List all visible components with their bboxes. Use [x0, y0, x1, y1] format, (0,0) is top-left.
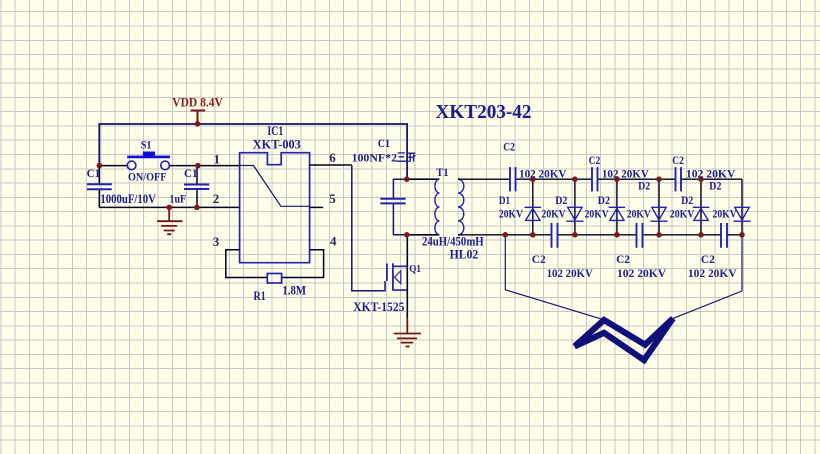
- svg-text:20KV: 20KV: [542, 207, 566, 221]
- svg-text:6: 6: [329, 150, 336, 165]
- svg-text:D1: D1: [499, 193, 510, 207]
- svg-text:20KV: 20KV: [670, 207, 695, 221]
- svg-text:C2: C2: [589, 153, 601, 167]
- svg-text:T1: T1: [436, 165, 449, 179]
- svg-text:3: 3: [213, 234, 220, 249]
- svg-text:1000uF/10V: 1000uF/10V: [100, 192, 155, 206]
- svg-text:24uH/450mH: 24uH/450mH: [422, 234, 484, 248]
- svg-text:100NF*2: 100NF*2: [352, 151, 397, 165]
- svg-text:C1: C1: [378, 136, 390, 150]
- svg-text:XKT203-42: XKT203-42: [436, 101, 532, 123]
- svg-text:C2: C2: [503, 139, 515, 153]
- svg-text:20KV: 20KV: [627, 207, 651, 221]
- svg-text:S1: S1: [141, 138, 152, 152]
- svg-text:D2: D2: [681, 193, 693, 207]
- svg-text:D2: D2: [598, 193, 610, 207]
- svg-text:R1: R1: [254, 289, 266, 303]
- svg-text:IC1: IC1: [267, 124, 283, 138]
- svg-text:102 20KV: 102 20KV: [617, 266, 666, 280]
- svg-text:102 20KV: 102 20KV: [547, 266, 594, 280]
- svg-text:5: 5: [329, 191, 336, 206]
- svg-text:2: 2: [213, 191, 220, 206]
- svg-text:XKT-003: XKT-003: [253, 138, 301, 152]
- svg-text:1: 1: [214, 152, 221, 167]
- svg-text:ON/OFF: ON/OFF: [128, 170, 167, 184]
- svg-text:4: 4: [330, 233, 337, 248]
- svg-text:20KV: 20KV: [585, 207, 609, 221]
- svg-text:20KV: 20KV: [499, 207, 523, 221]
- svg-text:C2: C2: [701, 252, 715, 266]
- svg-text:C2: C2: [672, 153, 684, 167]
- svg-text:D2: D2: [638, 178, 650, 192]
- svg-text:D2: D2: [555, 193, 567, 207]
- svg-text:D2: D2: [709, 178, 721, 192]
- svg-text:VDD 8.4V: VDD 8.4V: [172, 95, 223, 109]
- svg-text:XKT-1525: XKT-1525: [353, 300, 404, 314]
- svg-text:C1: C1: [87, 166, 101, 180]
- svg-text:102 20KV: 102 20KV: [519, 167, 567, 181]
- svg-text:20KV: 20KV: [713, 207, 737, 221]
- svg-text:C2: C2: [532, 252, 546, 266]
- svg-text:1.8M: 1.8M: [282, 283, 306, 297]
- svg-text:C1: C1: [184, 166, 198, 180]
- svg-text:Q1: Q1: [409, 263, 421, 275]
- svg-text:102 20KV: 102 20KV: [688, 266, 737, 280]
- svg-text:HL02: HL02: [450, 248, 479, 262]
- svg-text:C2: C2: [616, 252, 630, 266]
- svg-text:1uF: 1uF: [170, 192, 187, 206]
